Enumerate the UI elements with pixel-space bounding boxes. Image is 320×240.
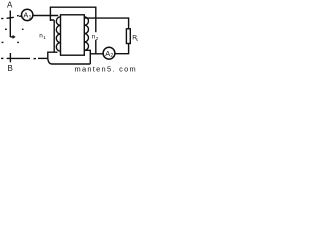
dash dot column right	[17, 15, 19, 17]
n2 label	[91, 32, 98, 40]
primary bottom lead	[48, 52, 58, 58]
svg-text:1: 1	[29, 15, 32, 21]
terminal tick A with current arrow	[9, 11, 11, 38]
svg-text:B: B	[8, 64, 13, 73]
wire dash left of A tick	[1, 18, 3, 20]
node B terminal tick	[9, 53, 11, 62]
bottom common link wire	[48, 58, 91, 64]
transformer core	[61, 15, 85, 55]
primary coil n1	[56, 17, 60, 51]
wire RL bottom	[115, 44, 129, 54]
wire A2 to n2 bottom junction	[90, 53, 103, 55]
secondary coil n2	[84, 17, 88, 51]
svg-text:1: 1	[43, 35, 46, 40]
dash dot column left	[5, 28, 7, 30]
svg-text:A: A	[7, 1, 13, 10]
svg-text:manten5. com: manten5. com	[75, 64, 137, 73]
ammeter A1	[22, 9, 33, 20]
wire A1 to primary top	[33, 14, 58, 17]
primary outer lead line	[53, 20, 55, 52]
over-the-top link wire	[50, 7, 95, 54]
wire n2 top to RL	[85, 18, 129, 29]
svg-text:2: 2	[96, 36, 99, 41]
ammeter A2	[103, 47, 115, 59]
svg-text:L: L	[136, 37, 138, 42]
n2 bottom lead	[84, 50, 90, 64]
wire A tick to ammeter	[7, 17, 14, 18]
resistor RL	[126, 29, 130, 44]
wire B dashes	[1, 57, 3, 59]
svg-text:2: 2	[110, 53, 113, 59]
